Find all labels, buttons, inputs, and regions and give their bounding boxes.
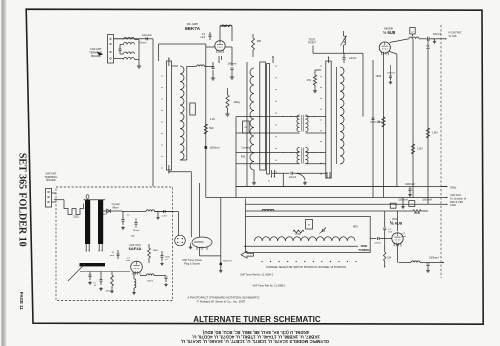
svg-text:1Meg: 1Meg xyxy=(234,101,241,104)
svg-text:1000mmf: 1000mmf xyxy=(405,184,415,186)
svg-text:270Ω: 270Ω xyxy=(295,234,301,236)
svg-text:To Junction of: To Junction of xyxy=(450,196,466,200)
svg-text:180M: 180M xyxy=(414,213,420,215)
svg-text:1000mmf: 1000mmf xyxy=(429,258,439,260)
svg-text:BOARD: BOARD xyxy=(46,178,55,182)
svg-text:Green: Green xyxy=(140,42,147,45)
svg-text:180mf: 180mf xyxy=(147,281,153,283)
svg-text:56Ω: 56Ω xyxy=(209,127,214,130)
svg-text:P06: P06 xyxy=(241,156,246,159)
svg-text:1500mmf: 1500mmf xyxy=(223,261,233,263)
svg-text:120V: 120V xyxy=(450,203,456,207)
svg-text:NPO: NPO xyxy=(353,226,358,228)
svg-text:6AF4A: 6AF4A xyxy=(129,246,142,251)
svg-text:1N36: 1N36 xyxy=(101,214,107,216)
svg-text:TUNING: TUNING xyxy=(358,248,370,252)
svg-text:PAGE 11: PAGE 11 xyxy=(19,292,24,311)
svg-text:1KB87, U, 1KB88, U, 1TA40, U,: 1KB87, U, 1KB88, U, 1TA40, U, 1TB61, U, … xyxy=(192,335,320,340)
svg-text:75mmf: 75mmf xyxy=(133,230,140,232)
svg-text:Ceramic: Ceramic xyxy=(242,147,252,150)
svg-text:150Ω: 150Ω xyxy=(376,75,382,78)
svg-text:240V: 240V xyxy=(450,185,456,189)
svg-text:1000mmf: 1000mmf xyxy=(210,147,220,150)
svg-text:220Ω: 220Ω xyxy=(73,217,79,219)
svg-text:VHF ANT.: VHF ANT. xyxy=(90,47,102,51)
svg-text:IF OUTPUT: IF OUTPUT xyxy=(449,31,463,34)
svg-text:POINT: POINT xyxy=(308,41,316,45)
svg-text:6BK7A: 6BK7A xyxy=(185,26,201,31)
svg-text:CM: CM xyxy=(244,127,248,129)
svg-text:mmf: mmf xyxy=(110,255,114,257)
svg-text:2.2mf: 2.2mf xyxy=(161,216,167,218)
svg-text:470mmf: 470mmf xyxy=(433,34,442,36)
svg-text:SET 365: SET 365 xyxy=(17,153,28,189)
svg-text:mmf: mmf xyxy=(402,236,407,238)
svg-text:22mmf: 22mmf xyxy=(374,242,381,244)
svg-text:© Howard W. Sams & Co., Inc. 1: © Howard W. Sams & Co., Inc. 1957 xyxy=(197,299,246,303)
svg-text:1800mmf: 1800mmf xyxy=(422,200,432,202)
svg-text:⅓ 6U8: ⅓ 6U8 xyxy=(383,30,396,35)
svg-text:OLYMPIC MODELS 1CA70, U, 1CB71: OLYMPIC MODELS 1CA70, U, 1CB71, U, 1CB77… xyxy=(181,339,329,344)
svg-text:VHF Tuner Part No. CL-9285-1: VHF Tuner Part No. CL-9285-1 xyxy=(253,285,287,288)
svg-text:mmf: mmf xyxy=(200,36,205,39)
svg-text:FOLDER 10: FOLDER 10 xyxy=(17,192,28,246)
svg-text:R36 & C58: R36 & C58 xyxy=(450,200,463,204)
svg-text:CHANNEL SELECTOR SWITCH SHOWN: CHANNEL SELECTOR SWITCH SHOWN IN CHANNEL… xyxy=(266,265,346,269)
svg-text:⅙ 6U8: ⅙ 6U8 xyxy=(390,220,403,225)
svg-text:1.5M: 1.5M xyxy=(432,132,437,135)
svg-text:mmf: mmf xyxy=(126,260,130,262)
svg-text:12mmf: 12mmf xyxy=(349,57,357,60)
svg-text:180Ω: 180Ω xyxy=(153,250,159,252)
svg-text:To C26: To C26 xyxy=(449,35,458,38)
svg-text:22mmf: 22mmf xyxy=(289,177,296,179)
svg-text:UHF Tuner Power: UHF Tuner Power xyxy=(182,259,202,262)
svg-text:2.2K: 2.2K xyxy=(210,118,215,121)
svg-text:VHF AGC: VHF AGC xyxy=(450,193,462,197)
svg-text:4KD94, U (Ch. 8A, 8AU, 8B, 8BU: 4KD94, U (Ch. 8A, 8AU, 8B, 8BU, 8C, 8CU,… xyxy=(202,330,309,335)
svg-text:Mixer: Mixer xyxy=(112,206,118,209)
svg-text:15K: 15K xyxy=(387,258,392,260)
svg-text:ALTERNATE TUNER SCHEMATIC: ALTERNATE TUNER SCHEMATIC xyxy=(193,315,321,324)
svg-text:180mmf: 180mmf xyxy=(387,73,395,75)
svg-text:Plug & Socket: Plug & Socket xyxy=(184,263,200,266)
svg-text:2.2M: 2.2M xyxy=(417,148,422,151)
svg-text:1M: 1M xyxy=(377,121,380,124)
svg-text:47Ω: 47Ω xyxy=(307,79,312,82)
svg-text:470Ω: 470Ω xyxy=(105,291,110,293)
svg-text:180mmf: 180mmf xyxy=(228,63,237,66)
svg-text:10M: 10M xyxy=(257,41,262,43)
svg-text:mmf: mmf xyxy=(388,231,393,233)
svg-text:Gimmick: Gimmick xyxy=(142,34,152,37)
svg-text:UHF Tuner Part No. CL-9284-1: UHF Tuner Part No. CL-9284-1 xyxy=(240,274,274,277)
